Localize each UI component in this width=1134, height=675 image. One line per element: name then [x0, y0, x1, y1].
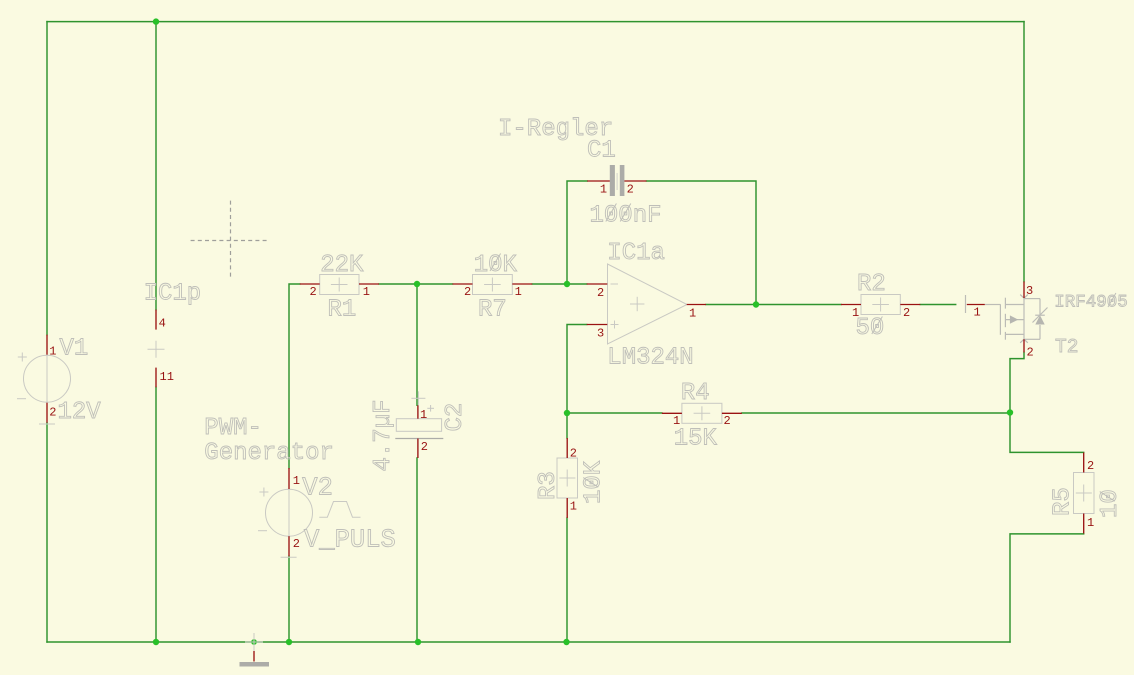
svg-text:2: 2 [310, 285, 317, 299]
svg-text:11: 11 [160, 370, 174, 384]
svg-text:R2: R2 [857, 271, 886, 298]
svg-text:R5: R5 [1050, 487, 1077, 516]
svg-text:1: 1 [673, 414, 680, 428]
svg-text:10: 10 [1097, 489, 1124, 518]
svg-text:1: 1 [515, 285, 522, 299]
svg-text:10K: 10K [581, 460, 608, 504]
svg-text:V1: V1 [60, 336, 89, 363]
svg-text:2: 2 [903, 306, 910, 320]
svg-text:4: 4 [159, 317, 166, 331]
svg-text:2: 2 [724, 414, 731, 428]
svg-text:22K: 22K [320, 252, 364, 279]
svg-text:2: 2 [570, 447, 577, 461]
svg-text:2: 2 [597, 286, 604, 300]
svg-text:1: 1 [689, 307, 696, 321]
svg-text:12V: 12V [58, 399, 102, 426]
svg-text:1: 1 [49, 345, 56, 359]
svg-text:50: 50 [856, 315, 885, 342]
svg-text:10K: 10K [474, 252, 518, 279]
svg-text:IC1a: IC1a [607, 240, 665, 267]
svg-text:R7: R7 [478, 296, 507, 323]
svg-text:4.7µF: 4.7µF [370, 399, 397, 471]
svg-text:R4: R4 [681, 380, 710, 407]
svg-text:PWM-: PWM- [204, 415, 262, 442]
svg-text:R1: R1 [328, 296, 357, 323]
svg-text:Generator: Generator [204, 440, 334, 467]
svg-text:2: 2 [1027, 346, 1034, 360]
svg-text:1: 1 [293, 474, 300, 488]
svg-text:1: 1 [852, 306, 859, 320]
svg-text:IRF4905: IRF4905 [1054, 293, 1128, 313]
svg-text:100nF: 100nF [590, 203, 662, 230]
svg-text:1: 1 [420, 408, 427, 422]
svg-text:3: 3 [597, 327, 604, 341]
svg-text:2: 2 [464, 285, 471, 299]
svg-text:3: 3 [1026, 284, 1033, 298]
svg-text:C1: C1 [587, 138, 616, 165]
svg-text:V2: V2 [302, 473, 333, 502]
svg-text:T2: T2 [1055, 336, 1078, 358]
svg-text:1: 1 [363, 285, 370, 299]
svg-text:2: 2 [627, 183, 634, 197]
svg-text:1: 1 [1087, 516, 1094, 530]
svg-text:1: 1 [600, 183, 607, 197]
svg-text:2: 2 [421, 440, 428, 454]
svg-text:R3: R3 [535, 471, 562, 500]
svg-text:1: 1 [570, 500, 577, 514]
svg-text:15K: 15K [674, 426, 718, 453]
svg-text:V_PULS: V_PULS [304, 526, 396, 555]
svg-text:2: 2 [49, 406, 56, 420]
svg-text:LM324N: LM324N [607, 345, 693, 372]
svg-text:1: 1 [974, 306, 981, 320]
svg-text:IC1p: IC1p [144, 281, 202, 308]
svg-text:C2: C2 [442, 403, 469, 432]
svg-text:2: 2 [1087, 459, 1094, 473]
svg-text:2: 2 [293, 537, 300, 551]
